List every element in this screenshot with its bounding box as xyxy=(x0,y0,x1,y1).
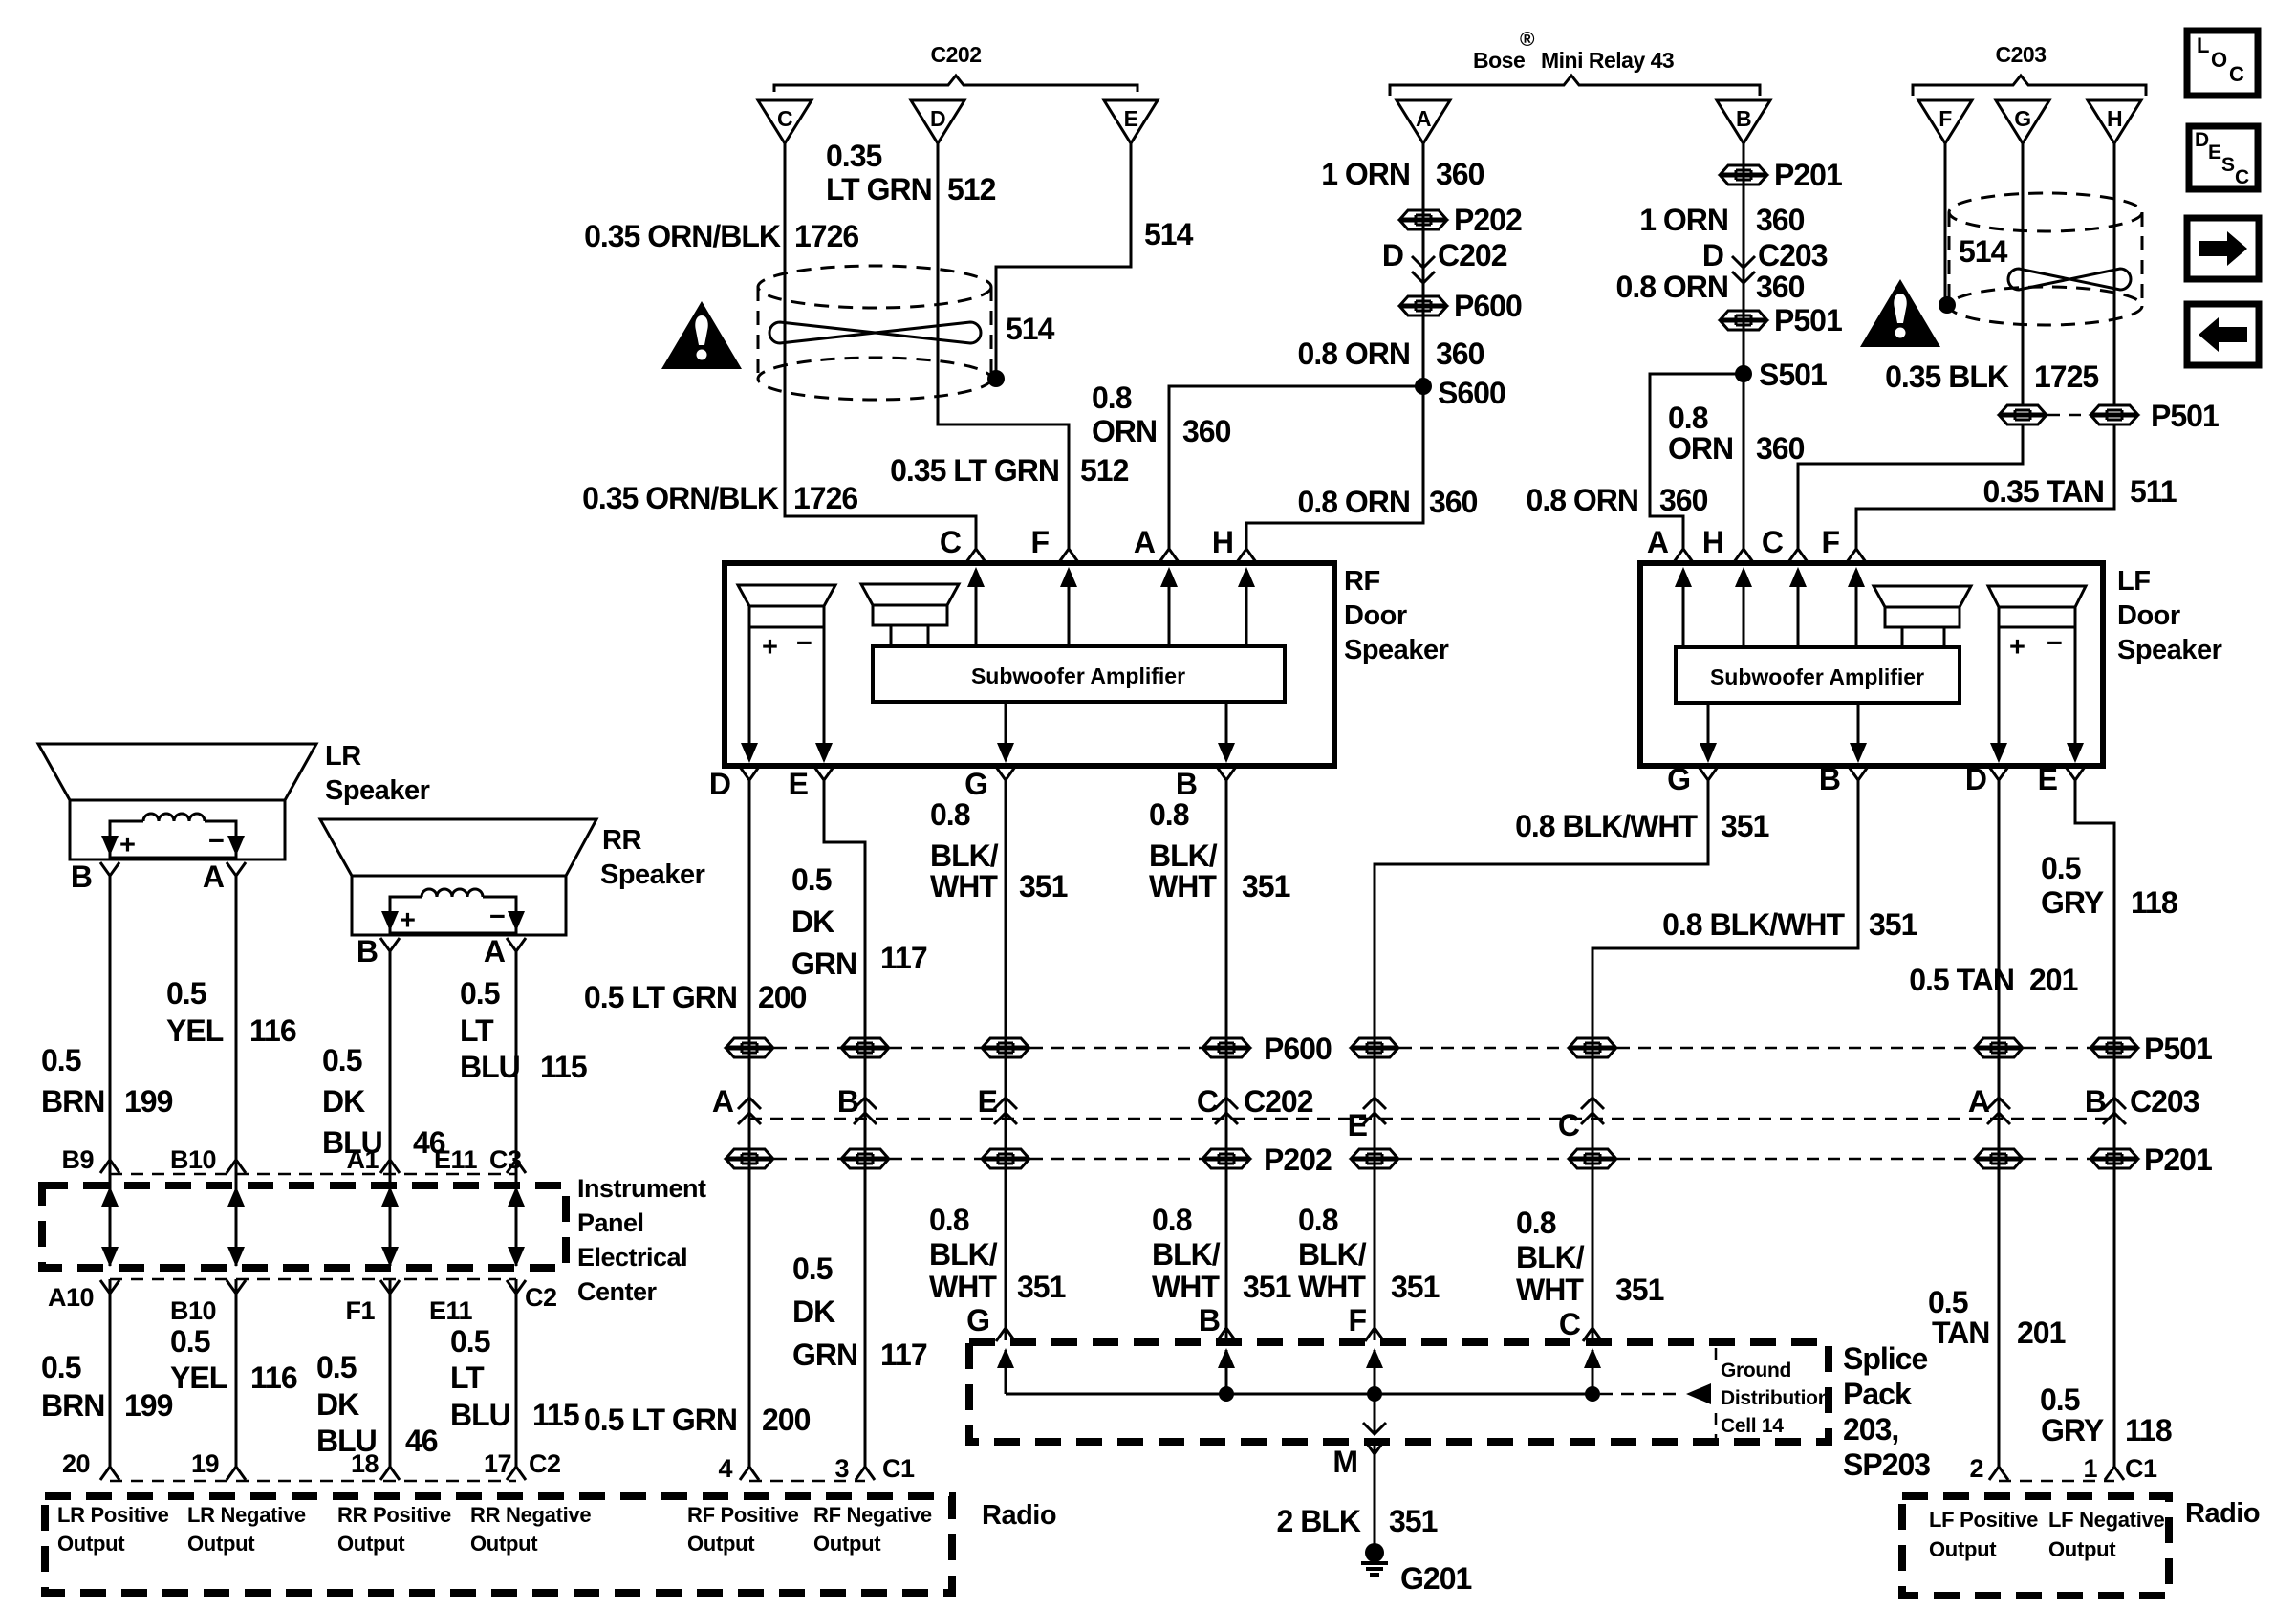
twisted pair symbol (right) xyxy=(2008,269,2131,290)
connector P202 inline on wire 360 xyxy=(1400,210,1446,229)
svg-text:Radio: Radio xyxy=(982,1500,1056,1531)
pin 1 at radio xyxy=(2105,1467,2124,1480)
svg-text:P600: P600 xyxy=(1264,1032,1332,1066)
pin A of RR speaker xyxy=(507,938,526,951)
svg-text:E11: E11 xyxy=(434,1145,478,1174)
svg-text:F: F xyxy=(1939,106,1952,131)
ground distribution cell box xyxy=(1715,1348,1718,1438)
svg-text:360: 360 xyxy=(1436,157,1484,191)
svg-text:0.5: 0.5 xyxy=(322,1043,362,1077)
svg-text:WHT: WHT xyxy=(929,1270,997,1304)
svg-text:C: C xyxy=(1762,525,1784,559)
svg-text:D: D xyxy=(930,106,945,131)
wire 360 branch from S501 to LF pin A xyxy=(1650,374,1744,549)
svg-text:B: B xyxy=(357,934,378,968)
svg-text:E: E xyxy=(1124,106,1138,131)
svg-text:DK: DK xyxy=(316,1387,359,1422)
pin B10 xyxy=(227,1160,246,1173)
svg-text:B: B xyxy=(837,1084,858,1119)
svg-text:BLU: BLU xyxy=(450,1398,510,1432)
wire 514 from C202-E to shield drain xyxy=(996,143,1131,375)
svg-text:Door: Door xyxy=(2117,600,2180,631)
pin A10 xyxy=(100,1280,119,1294)
wire 200 RF-D down to radio pin 4 xyxy=(748,779,751,1467)
svg-text:0.8: 0.8 xyxy=(1668,401,1708,435)
svg-text:C: C xyxy=(1558,1108,1580,1142)
svg-text:DK: DK xyxy=(322,1084,365,1119)
svg-text:TAN: TAN xyxy=(1932,1316,1989,1350)
pin H of C203 (triangle) xyxy=(2088,100,2141,143)
svg-text:Ground: Ground xyxy=(1721,1360,1791,1382)
svg-text:0.5: 0.5 xyxy=(2041,851,2081,885)
svg-text:YEL: YEL xyxy=(170,1360,227,1395)
wires through IP box with arrows xyxy=(101,1159,525,1267)
pin C of RF speaker xyxy=(966,549,986,562)
RF door speaker element (+/-) xyxy=(738,585,835,763)
pin 3 at radio xyxy=(856,1467,875,1480)
connector C202 pass-through row xyxy=(749,1118,2114,1120)
svg-text:0.5: 0.5 xyxy=(1928,1285,1968,1319)
svg-text:P501: P501 xyxy=(2151,399,2219,433)
svg-text:C2: C2 xyxy=(525,1283,557,1312)
svg-text:GRY: GRY xyxy=(2041,885,2104,920)
svg-text:YEL: YEL xyxy=(166,1013,224,1048)
connector line C1 right (dashed) xyxy=(1999,1480,2114,1483)
svg-text:LR Negative: LR Negative xyxy=(187,1503,306,1527)
Radio box (right) xyxy=(1902,1496,2169,1596)
svg-text:4: 4 xyxy=(718,1454,732,1483)
svg-text:203,: 203, xyxy=(1843,1412,1898,1447)
svg-text:G: G xyxy=(966,1303,989,1338)
svg-text:C: C xyxy=(1197,1084,1219,1119)
connector row P202 xyxy=(726,1149,772,1168)
svg-text:115: 115 xyxy=(532,1398,579,1432)
svg-text:0.5: 0.5 xyxy=(316,1350,357,1384)
svg-text:A: A xyxy=(1416,106,1431,131)
pin B of Bose relay (triangle) xyxy=(1717,100,1770,143)
wire 46 RR-B down xyxy=(389,950,392,1159)
wire 1725 from C203-G down xyxy=(2022,143,2025,405)
svg-text:0.5 LT GRN: 0.5 LT GRN xyxy=(584,1403,737,1437)
svg-text:B: B xyxy=(1736,106,1751,131)
svg-text:0.35 LT GRN: 0.35 LT GRN xyxy=(890,453,1059,488)
wire 115 RR-A down xyxy=(515,950,518,1159)
svg-text:ORN: ORN xyxy=(1092,414,1157,448)
svg-text:0.35 TAN: 0.35 TAN xyxy=(1982,474,2104,509)
svg-text:Output: Output xyxy=(187,1532,255,1556)
svg-text:116: 116 xyxy=(250,1360,297,1395)
svg-text:C: C xyxy=(940,525,962,559)
svg-text:0.8 ORN: 0.8 ORN xyxy=(1298,485,1410,519)
pin F of LF speaker xyxy=(1847,549,1866,562)
svg-text:1 ORN: 1 ORN xyxy=(1639,203,1728,237)
svg-text:0.5: 0.5 xyxy=(450,1324,490,1359)
wire 511 from P501 to LF pin F xyxy=(1856,424,2114,549)
svg-text:D: D xyxy=(1965,762,1986,796)
pin A of LR speaker xyxy=(227,862,246,876)
svg-text:Instrument: Instrument xyxy=(577,1174,706,1203)
svg-text:BLU: BLU xyxy=(460,1050,520,1084)
LR Speaker xyxy=(38,744,316,860)
pin B9 xyxy=(100,1160,119,1173)
svg-text:+: + xyxy=(400,905,415,936)
svg-text:200: 200 xyxy=(758,980,807,1014)
svg-text:C202: C202 xyxy=(1244,1084,1313,1119)
junction dot F xyxy=(1367,1386,1382,1402)
svg-text:0.8: 0.8 xyxy=(1092,381,1132,415)
svg-text:360: 360 xyxy=(1659,483,1708,517)
svg-text:199: 199 xyxy=(124,1084,173,1119)
svg-text:115: 115 xyxy=(540,1050,587,1084)
wire 360 branch from S600 to RF pin A xyxy=(1169,386,1423,549)
svg-text:Cell 14: Cell 14 xyxy=(1721,1415,1784,1437)
svg-text:351: 351 xyxy=(1721,809,1769,843)
shield drain junction dot (right) xyxy=(1939,296,1956,314)
svg-text:117: 117 xyxy=(880,941,927,975)
twisted pair shield (dashed cylinder, right) xyxy=(1949,193,2142,325)
junction dot B xyxy=(1219,1386,1234,1402)
svg-text:Output: Output xyxy=(337,1532,405,1556)
svg-text:−: − xyxy=(208,826,224,857)
svg-text:B10: B10 xyxy=(170,1296,216,1325)
connector line C2 radio (dashed) xyxy=(110,1480,516,1483)
svg-text:1725: 1725 xyxy=(2034,359,2098,394)
wire 201 LF-D down to radio pin 2 xyxy=(1998,779,2001,1467)
svg-text:0.8 ORN: 0.8 ORN xyxy=(1527,483,1638,517)
svg-text:0.8 ORN: 0.8 ORN xyxy=(1298,337,1410,371)
svg-text:351: 351 xyxy=(1242,869,1290,903)
connector P501 inline pair xyxy=(2000,405,2046,424)
svg-text:360: 360 xyxy=(1436,337,1484,371)
wire 117 RF-E down (jog) to radio pin 3 xyxy=(824,779,865,1467)
svg-text:C1: C1 xyxy=(882,1454,915,1483)
svg-text:B: B xyxy=(71,859,92,894)
svg-text:351: 351 xyxy=(1019,869,1068,903)
svg-text:BLK/: BLK/ xyxy=(1298,1237,1367,1272)
svg-text:A1: A1 xyxy=(346,1145,379,1174)
pin C at splice pack xyxy=(1583,1328,1602,1341)
wire 46 to radio xyxy=(389,1279,392,1467)
svg-text:E: E xyxy=(2038,762,2058,796)
svg-text:C203: C203 xyxy=(2130,1084,2199,1119)
svg-text:DK: DK xyxy=(792,1295,835,1329)
svg-text:Output: Output xyxy=(57,1532,125,1556)
wire 514 from C203-F to shield drain xyxy=(1944,143,1947,301)
splice pack box xyxy=(969,1342,1829,1442)
pin A of Bose relay (triangle) xyxy=(1397,100,1450,143)
svg-text:C202: C202 xyxy=(1438,238,1507,272)
svg-text:RR: RR xyxy=(602,825,641,856)
wire 351 from LF-B to splice (C column) xyxy=(1592,779,1858,1340)
svg-text:B: B xyxy=(2085,1084,2106,1119)
connector line C3 (dashed) xyxy=(110,1173,516,1176)
svg-text:F1: F1 xyxy=(345,1296,375,1325)
svg-text:Output: Output xyxy=(813,1532,881,1556)
svg-text:−: − xyxy=(2047,628,2062,659)
svg-text:0.35 BLK: 0.35 BLK xyxy=(1885,359,2009,394)
svg-text:A: A xyxy=(1647,525,1669,559)
wire 511 from C203-H down xyxy=(2113,143,2116,405)
wire 199 LR-B down xyxy=(109,875,112,1159)
svg-text:200: 200 xyxy=(762,1403,811,1437)
shield drain junction dot xyxy=(987,370,1005,387)
svg-text:P501: P501 xyxy=(1774,303,1842,337)
wire 1725 from P501 to LF pin C xyxy=(1798,424,2023,549)
svg-text:GRY: GRY xyxy=(2041,1413,2104,1447)
pin H of RF speaker xyxy=(1237,549,1256,562)
LF door speaker element (+/-) xyxy=(1988,586,2086,763)
svg-text:LT: LT xyxy=(450,1360,485,1395)
wire 351 from splice to ground xyxy=(1374,1394,1376,1545)
amp output wires (RF) xyxy=(1006,702,1226,745)
ground G201 xyxy=(1361,1543,1388,1575)
svg-text:LT: LT xyxy=(460,1013,494,1048)
svg-text:1726: 1726 xyxy=(793,481,857,515)
svg-text:0.8 BLK/WHT: 0.8 BLK/WHT xyxy=(1662,907,1845,942)
svg-text:+: + xyxy=(119,830,135,860)
svg-text:BLK/: BLK/ xyxy=(1152,1237,1221,1272)
svg-text:B: B xyxy=(1819,762,1840,796)
RF Door Speaker box xyxy=(725,563,1334,766)
twisted pair shield (dashed cylinder) around wires 1726/512 xyxy=(758,266,991,400)
svg-text:WHT: WHT xyxy=(1152,1270,1220,1304)
svg-text:360: 360 xyxy=(1756,270,1805,304)
svg-text:511: 511 xyxy=(2130,474,2177,509)
svg-text:201: 201 xyxy=(2029,963,2078,997)
pin 4 at radio xyxy=(740,1467,759,1480)
svg-text:Radio: Radio xyxy=(2185,1498,2260,1529)
svg-text:G201: G201 xyxy=(1400,1561,1471,1596)
RF subwoofer speaker element xyxy=(861,584,959,646)
svg-text:P201: P201 xyxy=(1774,158,1842,192)
wire 360 from Bose A down to S600 xyxy=(1422,143,1425,381)
pin B10 (lower) xyxy=(227,1280,246,1294)
svg-text:0.5: 0.5 xyxy=(170,1324,210,1359)
svg-text:+: + xyxy=(762,632,777,663)
svg-text:BLK/: BLK/ xyxy=(1149,838,1218,873)
svg-text:Speaker: Speaker xyxy=(325,775,430,806)
svg-text:0.8: 0.8 xyxy=(1149,797,1189,832)
svg-text:0.8 ORN: 0.8 ORN xyxy=(1616,270,1728,304)
svg-text:BRN: BRN xyxy=(41,1084,104,1119)
svg-text:H: H xyxy=(2107,106,2122,131)
svg-text:C: C xyxy=(2229,62,2244,86)
svg-text:360: 360 xyxy=(1182,414,1231,448)
svg-text:0.5: 0.5 xyxy=(166,976,206,1011)
svg-text:H: H xyxy=(1702,525,1723,559)
pin G of C203 (triangle) xyxy=(1996,100,2049,143)
wire 512 from C202-D to RF speaker pin F xyxy=(938,143,1069,549)
pin M xyxy=(1365,1441,1384,1454)
svg-text:0.35 ORN/BLK: 0.35 ORN/BLK xyxy=(584,219,781,253)
svg-text:18: 18 xyxy=(351,1449,379,1478)
svg-text:20: 20 xyxy=(62,1449,90,1478)
pin B of LR speaker xyxy=(100,862,119,876)
svg-text:0.8: 0.8 xyxy=(1298,1203,1338,1237)
svg-text:A: A xyxy=(1968,1084,1990,1119)
pin F at splice pack xyxy=(1365,1328,1384,1341)
svg-text:0.8: 0.8 xyxy=(929,1203,969,1237)
svg-text:BLK/: BLK/ xyxy=(930,838,999,873)
svg-text:Panel: Panel xyxy=(577,1208,644,1237)
svg-text:0.8 BLK/WHT: 0.8 BLK/WHT xyxy=(1515,809,1698,843)
svg-text:B9: B9 xyxy=(61,1145,94,1174)
svg-text:A: A xyxy=(484,934,506,968)
svg-text:P202: P202 xyxy=(1454,203,1522,237)
svg-text:G: G xyxy=(964,767,987,801)
amp output wires (LF) xyxy=(1708,703,1858,745)
pin D of RF speaker (bottom) xyxy=(740,767,759,780)
wire 116 to radio xyxy=(235,1279,238,1467)
Instrument Panel Electrical Center box xyxy=(42,1186,566,1268)
splice S501 xyxy=(1735,365,1752,382)
svg-text:E: E xyxy=(978,1084,998,1119)
svg-text:512: 512 xyxy=(947,172,996,207)
svg-text:GRN: GRN xyxy=(791,946,856,981)
svg-text:0.5: 0.5 xyxy=(792,1251,833,1286)
svg-text:WHT: WHT xyxy=(1298,1270,1366,1304)
svg-text:360: 360 xyxy=(1756,431,1805,466)
svg-text:Speaker: Speaker xyxy=(600,859,705,890)
svg-text:BLK/: BLK/ xyxy=(929,1237,998,1272)
warning triangle (right) xyxy=(1860,279,1940,347)
svg-text:0.5: 0.5 xyxy=(460,976,500,1011)
connector row P600 xyxy=(726,1038,772,1057)
svg-text:46: 46 xyxy=(405,1424,438,1458)
svg-text:Pack: Pack xyxy=(1843,1377,1912,1411)
pin 17 xyxy=(507,1467,526,1480)
svg-text:E: E xyxy=(1348,1108,1368,1142)
svg-text:C: C xyxy=(777,106,792,131)
svg-text:Speaker: Speaker xyxy=(2117,635,2222,665)
svg-text:A: A xyxy=(1134,525,1156,559)
pin C of C202 (triangle) xyxy=(758,100,812,143)
svg-text:DK: DK xyxy=(791,904,834,939)
svg-text:BLK/: BLK/ xyxy=(1516,1240,1585,1274)
wire 351 RF-G down to splice xyxy=(1005,779,1007,1340)
svg-text:Door: Door xyxy=(1344,600,1407,631)
svg-text:3: 3 xyxy=(834,1454,849,1483)
svg-text:RF: RF xyxy=(1344,566,1380,597)
svg-text:0.5: 0.5 xyxy=(2040,1382,2080,1417)
svg-text:118: 118 xyxy=(2131,885,2177,920)
svg-text:+: + xyxy=(2009,632,2025,663)
svg-text:A10: A10 xyxy=(48,1283,94,1312)
svg-text:514: 514 xyxy=(1144,217,1194,251)
svg-text:C: C xyxy=(1559,1307,1581,1341)
pin E of LF speaker (bottom) xyxy=(2066,767,2085,780)
svg-text:1726: 1726 xyxy=(794,219,858,253)
svg-text:0.8: 0.8 xyxy=(1152,1203,1192,1237)
svg-text:D: D xyxy=(1702,238,1723,272)
svg-text:0.5 TAN: 0.5 TAN xyxy=(1909,963,2014,997)
svg-text:A: A xyxy=(712,1084,734,1119)
svg-text:0.8: 0.8 xyxy=(1516,1206,1556,1240)
pin D of LF speaker (bottom) xyxy=(1989,767,2008,780)
svg-text:Splice: Splice xyxy=(1843,1341,1927,1376)
svg-text:Subwoofer Amplifier: Subwoofer Amplifier xyxy=(1710,664,1924,689)
svg-text:S: S xyxy=(2221,154,2235,176)
pin A of LF speaker xyxy=(1674,549,1693,562)
svg-text:BRN: BRN xyxy=(41,1388,104,1423)
splice S600 xyxy=(1415,378,1432,395)
svg-text:GRN: GRN xyxy=(792,1338,857,1372)
svg-text:P202: P202 xyxy=(1264,1142,1332,1177)
svg-text:E: E xyxy=(789,767,809,801)
svg-text:512: 512 xyxy=(1080,453,1129,488)
wire 360 from Bose B down to LF pin H xyxy=(1743,143,1745,549)
svg-text:Output: Output xyxy=(470,1532,538,1556)
pin F of RF speaker xyxy=(1059,549,1078,562)
svg-text:1: 1 xyxy=(2083,1454,2097,1483)
svg-text:E11: E11 xyxy=(429,1296,473,1325)
pin B of RF speaker (bottom) xyxy=(1217,767,1236,780)
wire 118 LF-E down (jog) to radio pin 1 xyxy=(2075,779,2114,1467)
svg-text:C202: C202 xyxy=(931,42,982,67)
warning triangle (left) xyxy=(661,301,742,369)
pin 19 xyxy=(227,1467,246,1480)
RR Speaker xyxy=(320,819,596,936)
connector P201 inline on wire 360 xyxy=(1721,165,1766,185)
svg-text:B10: B10 xyxy=(170,1145,216,1174)
svg-text:S501: S501 xyxy=(1759,358,1827,392)
svg-text:351: 351 xyxy=(1243,1270,1291,1304)
svg-text:360: 360 xyxy=(1429,485,1478,519)
wire 360 branch from S600 to RF pin H xyxy=(1246,386,1423,549)
svg-text:WHT: WHT xyxy=(1516,1273,1584,1307)
pin 2 at radio xyxy=(1989,1467,2008,1480)
svg-text:RR Negative: RR Negative xyxy=(470,1503,591,1527)
svg-text:0.35: 0.35 xyxy=(826,139,881,173)
svg-text:LF: LF xyxy=(2117,566,2150,597)
svg-text:RF Positive: RF Positive xyxy=(687,1503,799,1527)
wire 1726 from C202-C to RF speaker pin C xyxy=(785,143,976,549)
svg-text:S600: S600 xyxy=(1438,376,1505,410)
pin 20 xyxy=(100,1467,119,1480)
pin E11 (lower) xyxy=(507,1280,526,1294)
svg-text:Speaker: Speaker xyxy=(1344,635,1449,665)
connector row P501 xyxy=(1352,1038,1397,1057)
connector C202 bracket xyxy=(774,76,1137,92)
svg-text:P501: P501 xyxy=(2144,1032,2212,1066)
LOC icon box xyxy=(2187,31,2258,96)
pin E of C202 (triangle) xyxy=(1104,100,1158,143)
wire 199 to radio xyxy=(109,1279,112,1467)
connector row P201 xyxy=(1352,1149,1397,1168)
svg-text:G: G xyxy=(1667,762,1690,796)
svg-text:199: 199 xyxy=(124,1388,173,1423)
svg-text:Electrical: Electrical xyxy=(577,1243,687,1272)
Radio box (left) xyxy=(45,1496,952,1593)
wire 351 from LF-G to splice (F column) xyxy=(1375,779,1708,1340)
svg-text:0.35 ORN/BLK: 0.35 ORN/BLK xyxy=(582,481,779,515)
junction dot C xyxy=(1585,1386,1600,1402)
svg-text:RR Positive: RR Positive xyxy=(337,1503,451,1527)
svg-text:2: 2 xyxy=(1969,1454,1983,1483)
svg-text:Output: Output xyxy=(2048,1537,2116,1561)
svg-text:®: ® xyxy=(1520,29,1535,51)
pin F of C203 (triangle) xyxy=(1918,100,1972,143)
svg-text:Mini Relay 43: Mini Relay 43 xyxy=(1541,48,1674,73)
svg-text:351: 351 xyxy=(1389,1504,1438,1538)
amp input wires (LF) xyxy=(1683,570,1856,647)
svg-text:Subwoofer Amplifier: Subwoofer Amplifier xyxy=(971,664,1185,688)
svg-text:−: − xyxy=(489,902,505,932)
svg-text:P600: P600 xyxy=(1454,289,1522,323)
pin E of RF speaker (bottom) xyxy=(814,767,834,780)
svg-text:LF Positive: LF Positive xyxy=(1929,1508,2038,1532)
svg-text:351: 351 xyxy=(1017,1270,1066,1304)
